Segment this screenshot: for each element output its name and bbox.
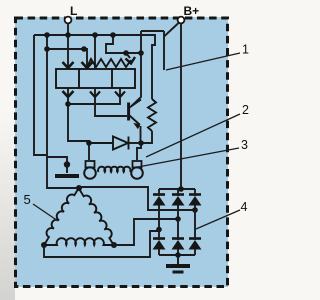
- regulator ground brush: [64, 161, 70, 167]
- diode arrow into block at 68: [63, 62, 74, 68]
- wire left vertical B: [47, 35, 79, 188]
- node dot (141,53): [138, 50, 144, 56]
- node dot middle column: [175, 216, 181, 222]
- resistor R2 vertical zigzag: [148, 99, 156, 131]
- terminal L: [65, 17, 72, 24]
- node dot left column: [156, 227, 162, 233]
- wire base feed: [95, 97, 127, 116]
- node dot bottom bus: [175, 252, 181, 258]
- node dot (47,35): [44, 32, 50, 38]
- wire phase top to right column: [79, 187, 195, 210]
- wire phase bottom-right to middle column: [114, 219, 178, 245]
- node dot top bus: [178, 186, 184, 192]
- wire B+ elbow: [141, 31, 164, 53]
- svg-text:L: L: [70, 4, 77, 18]
- callout line 3: [138, 148, 239, 167]
- rectifier diode D6: [172, 219, 185, 255]
- rectifier diode D5: [153, 230, 166, 256]
- node dot (95,35): [92, 32, 98, 38]
- wire B+ down to rectifier: [180, 24, 182, 190]
- rectifier diode D4: [189, 189, 202, 210]
- wire jog from bus to y53 line: [106, 35, 141, 53]
- panel background: [15, 17, 228, 287]
- ground bar: [55, 174, 79, 178]
- svg-text:2: 2: [242, 103, 249, 117]
- node dot right column: [192, 207, 198, 213]
- rectifier diode D2: [153, 189, 166, 231]
- node dot (113,35): [110, 32, 116, 38]
- winding bottom side: [44, 238, 114, 245]
- node dot (47,49): [44, 46, 50, 52]
- callout line 1: [166, 53, 240, 70]
- wire y49 branch: [47, 49, 87, 66]
- winding right side: [80, 187, 118, 245]
- slip ring right: [131, 167, 143, 179]
- slip ring left: [84, 167, 96, 179]
- node bottom-right vertex: [111, 242, 117, 248]
- wire collector feed: [132, 53, 142, 106]
- wire aux bus y104: [68, 97, 120, 104]
- rectifier top bus: [159, 188, 195, 190]
- diode arrow onto resistor end: [126, 53, 130, 58]
- wire top bus: [34, 35, 155, 99]
- transistor Q1: [129, 100, 141, 125]
- wire emitter down: [140, 126, 142, 143]
- node dot (68,104): [65, 101, 71, 107]
- node dot (68,35): [65, 32, 71, 38]
- diode arrow into block at 87: [82, 62, 93, 68]
- brush left: [86, 161, 95, 168]
- node top vertex: [76, 185, 82, 191]
- svg-text:4: 4: [241, 200, 248, 214]
- transistor emitter arrowhead: [134, 124, 139, 129]
- node dot (141,143): [138, 140, 144, 146]
- svg-text:1: 1: [242, 43, 249, 57]
- wire phase bottom-left to left column: [44, 231, 159, 257]
- wire resistor bottom: [141, 131, 152, 143]
- winding left side: [41, 186, 79, 244]
- regulator hybrid block U1: [56, 69, 135, 88]
- rectifier diode D7: [189, 210, 202, 255]
- wire left vertical A: [34, 35, 47, 155]
- svg-text:B+: B+: [184, 4, 200, 18]
- wire drop to block at 95: [94, 35, 96, 69]
- wire drop to block at 68: [67, 35, 69, 66]
- diode arrow below block at 68: [67, 88, 69, 96]
- resistor R1 horizontal zigzag: [87, 59, 131, 67]
- wire ground branch: [47, 157, 67, 173]
- callout line 2: [146, 114, 240, 157]
- brush right: [133, 161, 142, 168]
- svg-text:5: 5: [24, 192, 31, 207]
- ground: [166, 255, 190, 272]
- diode arrow below block at 95: [94, 88, 96, 96]
- left margin shading: [0, 110, 15, 300]
- svg-text:3: 3: [241, 138, 248, 152]
- wire B+ diagonal: [164, 23, 179, 37]
- callout line 5: [33, 204, 58, 221]
- node dot (126,53): [123, 50, 129, 56]
- rectifier bottom bus: [159, 254, 195, 256]
- node dot (84,49): [81, 46, 87, 52]
- rectifier diode D3: [172, 189, 185, 219]
- wire L stem: [67, 24, 69, 36]
- freewheel diode D1: [89, 137, 141, 150]
- diode arrow below block at 120: [119, 88, 121, 96]
- wire regulator to freewheel node: [68, 104, 89, 160]
- node dot (89,143): [86, 140, 92, 146]
- dashed housing border: [16, 18, 228, 287]
- wire B+ right branch: [163, 31, 165, 70]
- callout line 4: [196, 210, 240, 229]
- field winding L1 coil: [98, 167, 130, 172]
- node bottom-left vertex: [41, 242, 47, 248]
- wire emitter to right brush: [137, 143, 141, 160]
- terminal B+: [178, 17, 185, 24]
